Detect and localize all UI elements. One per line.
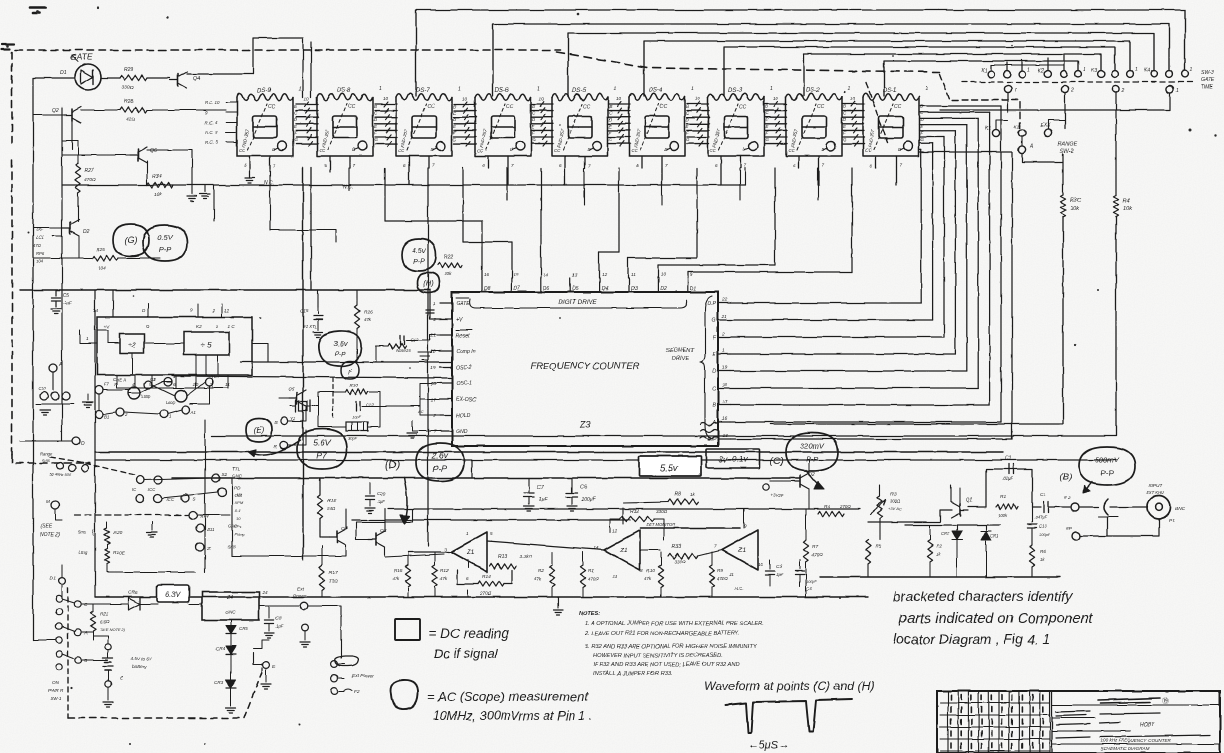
- pin stubs DS-5: [559, 156, 591, 185]
- svg-text:10: 10: [383, 96, 389, 101]
- svg-text:P-P: P-P: [159, 245, 172, 254]
- resistor R2: [549, 565, 554, 587]
- wire +V top: [112, 290, 114, 317]
- gate symbol 2: [175, 390, 187, 402]
- svg-text:+3V AC: +3V AC: [888, 506, 902, 511]
- svg-text:1μF: 1μF: [776, 572, 784, 577]
- display DS-8 FND-357: [317, 94, 378, 156]
- wire C5 top rail: [20, 289, 430, 291]
- svg-text:←5μS→: ←5μS→: [748, 739, 789, 751]
- svg-text:G: G: [453, 137, 457, 142]
- BNC connector P1: [1148, 496, 1171, 519]
- svg-text:Q4: Q4: [341, 526, 348, 532]
- wire rail y460: [95, 459, 1116, 461]
- resistor R14 feedback loop: [457, 570, 478, 584]
- svg-text:10k: 10k: [154, 192, 162, 198]
- svg-text:R29: R29: [124, 67, 133, 73]
- svg-text:D: D: [712, 369, 716, 375]
- svg-text:B: B: [686, 104, 689, 109]
- resistor R13: [490, 563, 516, 568]
- dashed bottom-left boundary: [68, 672, 262, 718]
- svg-text:D2: D2: [83, 229, 90, 235]
- svg-text:R10E: R10E: [113, 550, 126, 556]
- resistor R28: [120, 107, 147, 112]
- wire nodeP web: [1080, 517, 1107, 536]
- switch SW-3 contact group1-1: [988, 71, 995, 78]
- svg-text:330Ω: 330Ω: [122, 85, 134, 91]
- capacitor C1 top: [1008, 464, 1010, 474]
- wire dashed link SW-3 to RANGE SW-2: [940, 74, 1020, 128]
- svg-text:HOBY: HOBY: [1140, 722, 1155, 728]
- svg-text:11: 11: [225, 382, 230, 388]
- svg-text:K1: K1: [981, 68, 987, 74]
- svg-text:5.5v: 5.5v: [660, 463, 679, 474]
- switch RANGE SW-2 pole A: [1018, 146, 1025, 153]
- svg-text:CC: CC: [268, 104, 276, 110]
- svg-text:DET MONITOR: DET MONITOR: [646, 522, 675, 527]
- divide-by-2 block: [120, 334, 144, 353]
- svg-text:C1: C1: [1040, 492, 1046, 498]
- svg-text:CC: CC: [817, 104, 825, 110]
- resistor R7: [803, 540, 808, 562]
- capacitor C4: [799, 560, 801, 569]
- wire rail x35 to switch: [33, 639, 55, 641]
- wire rail y185 corner: [744, 168, 746, 185]
- node Ext Power: [300, 602, 308, 610]
- svg-text:270Ω: 270Ω: [479, 591, 492, 596]
- wire RW right: [197, 514, 230, 516]
- crystal Y1: [295, 400, 297, 412]
- svg-text:10MHz, 300mVrms at Pin 1 .: 10MHz, 300mVrms at Pin 1 .: [433, 709, 593, 723]
- wire rail y185: [62, 184, 745, 186]
- svg-text:B: B: [765, 104, 768, 109]
- svg-text:330Ω: 330Ω: [656, 509, 668, 514]
- wire R13 to amp2: [444, 551, 451, 553]
- svg-text:P1: P1: [1169, 518, 1175, 524]
- switch SW-3 pole contact 1: [1004, 85, 1011, 92]
- svg-text:CC: CC: [319, 148, 326, 153]
- svg-text:ON: ON: [52, 680, 60, 685]
- capacitor C3: [769, 560, 771, 569]
- svg-text:2t': 2t': [206, 546, 212, 551]
- svg-text:F: F: [686, 130, 689, 135]
- wire arc to BNC: [1110, 506, 1148, 508]
- waveform drawing: [725, 699, 852, 733]
- svg-text:0.5V: 0.5V: [157, 233, 173, 242]
- wire S2: [144, 478, 212, 480]
- svg-text:C20: C20: [377, 491, 386, 497]
- svg-text:1k: 1k: [690, 492, 696, 497]
- svg-text:P7: P7: [317, 451, 328, 461]
- node D contact: [72, 437, 80, 445]
- title block scribbles: [1056, 697, 1210, 751]
- svg-text:R8: R8: [674, 492, 681, 498]
- svg-text:470Ω: 470Ω: [812, 552, 823, 557]
- svg-text:1: 1: [1135, 67, 1138, 73]
- svg-text:R6: R6: [1040, 549, 1046, 554]
- wire Q1 web: [868, 485, 986, 540]
- svg-text:11: 11: [631, 272, 636, 277]
- ground C15: [313, 331, 323, 333]
- wire battery top: [93, 636, 108, 644]
- svg-text:R7: R7: [812, 544, 818, 550]
- capacitor C8: [268, 606, 270, 618]
- wire amp2-amp3: [640, 549, 660, 551]
- notes text block: [579, 611, 764, 677]
- svg-text:47k: 47k: [534, 576, 542, 581]
- svg-text:100pF: 100pF: [1039, 532, 1051, 537]
- resistor R33: [668, 553, 698, 558]
- svg-text:#P: #P: [1066, 526, 1073, 532]
- wire R8 left: [623, 502, 668, 503]
- svg-text:B: B: [374, 104, 377, 109]
- svg-text:D5: D5: [572, 286, 579, 292]
- svg-text:DIGIT DRIVE: DIGIT DRIVE: [559, 299, 598, 306]
- svg-text:BNC: BNC: [1175, 506, 1186, 512]
- wire segment bus between displays: [687, 102, 709, 147]
- resistor R18: [317, 495, 322, 519]
- svg-text:3.3kΩ: 3.3kΩ: [520, 554, 533, 559]
- annotation bubble 3.6v: [319, 331, 361, 366]
- svg-text:F: F: [609, 130, 612, 135]
- svg-text:R28: R28: [124, 99, 133, 105]
- svg-text:500mV: 500mV: [1095, 456, 1120, 465]
- svg-text:R5: R5: [875, 544, 881, 550]
- svg-text:{: {: [92, 530, 94, 536]
- title block outer box: [937, 691, 1220, 753]
- svg-text:B: B: [713, 403, 717, 409]
- switch RANGE SW-2 contact K11: [1018, 129, 1025, 136]
- wire switch web: [99, 382, 209, 414]
- IC Z3 digit pins top: [482, 272, 696, 292]
- svg-text:5.6V: 5.6V: [313, 437, 332, 447]
- svg-text:12: 12: [224, 308, 230, 313]
- capacitor C6: [571, 478, 573, 492]
- wire R3C down to corner: [770, 217, 1063, 424]
- svg-text:10k: 10k: [444, 271, 452, 276]
- svg-text:1. A OPTIONAL JUMPER FOR USE: 1. A OPTIONAL JUMPER FOR USE WITH EXTERN…: [585, 621, 764, 627]
- svg-text:.1μF: .1μF: [63, 300, 73, 305]
- switch SW-3 contact group4-3: [1182, 71, 1189, 78]
- wire K1 up: [996, 120, 1008, 129]
- svg-text:R30: R30: [350, 383, 359, 388]
- svg-text:PPs: PPs: [234, 524, 241, 529]
- svg-text:C15: C15: [300, 308, 309, 313]
- svg-text:2: 2: [211, 308, 215, 313]
- enclosure dashed boundary top: [12, 50, 560, 143]
- LED D1 gate lamp: [75, 64, 101, 90]
- op-amp Z1b: [604, 530, 640, 570]
- wire Q2 emitter: [808, 489, 810, 509]
- svg-text:2: 2: [1070, 88, 1074, 94]
- svg-text:(H): (H): [423, 279, 434, 288]
- svg-text:2: 2: [432, 317, 436, 323]
- svg-text:Z4: Z4: [226, 595, 233, 601]
- boxed 6.3V: [157, 585, 189, 602]
- pin stubs DS-9: [244, 156, 276, 168]
- svg-text:F7: F7: [104, 382, 110, 387]
- switch SW-3 contact group4-1: [1151, 71, 1158, 78]
- svg-text:⑲: ⑲: [1162, 697, 1169, 705]
- capacitor C12b: [355, 402, 357, 411]
- label N.C. pins DS-9: [205, 100, 237, 145]
- svg-text:Z1: Z1: [466, 549, 475, 556]
- svg-text:D1: D1: [690, 286, 697, 292]
- gate symbol 1: [128, 387, 140, 399]
- wire under R5: [867, 564, 869, 577]
- svg-text:A: A: [1029, 144, 1034, 150]
- wire gate-time bus line 5: [724, 47, 1115, 96]
- mark left edge: [2, 44, 14, 49]
- dashed switch gang SW-1: [67, 588, 69, 718]
- wire R32 loop: [610, 519, 620, 532]
- svg-text:1: 1: [379, 86, 382, 92]
- svg-text:E: E: [120, 675, 123, 680]
- svg-text:RP6: RP6: [36, 251, 45, 256]
- resistor R9: [709, 565, 714, 587]
- wire Q pair web: [232, 478, 444, 557]
- wire rhs rail y577: [820, 576, 1060, 578]
- contact 2t: [196, 543, 204, 551]
- svg-text:F: F: [765, 130, 768, 135]
- svg-text:.1μF: .1μF: [377, 499, 386, 504]
- svg-text:EX-OSC: EX-OSC: [456, 397, 476, 403]
- svg-text:F: F: [348, 370, 352, 376]
- wire gate-time bus line 7: [884, 61, 1078, 96]
- svg-text:+3V2P: +3V2P: [770, 493, 783, 498]
- svg-text:7: 7: [432, 163, 435, 168]
- resistor R17: [319, 566, 324, 590]
- svg-text:330Ω: 330Ω: [674, 559, 686, 564]
- handwritten bracketed note: [893, 588, 1093, 647]
- wire switch stub: [1063, 55, 1065, 70]
- contact jack top: [302, 625, 309, 632]
- ground C7: [524, 505, 534, 507]
- legend AC circle symbol: [391, 680, 419, 709]
- svg-text:1: 1: [299, 86, 302, 92]
- transistor D2: [69, 222, 71, 234]
- svg-text:1: 1: [848, 86, 851, 92]
- resistor R2b: [927, 540, 932, 562]
- svg-text:2: 2: [124, 412, 128, 417]
- svg-text:(E): (E): [254, 426, 265, 435]
- wire pair tall: [302, 168, 304, 560]
- ground test points: [40, 409, 50, 411]
- svg-text:D7: D7: [513, 286, 520, 292]
- svg-text:47k: 47k: [364, 317, 372, 322]
- svg-text:100k: 100k: [998, 513, 1008, 518]
- annotation bubble 4.5v: [402, 239, 436, 271]
- resistor R16: [405, 565, 410, 587]
- wire contacts: [288, 406, 306, 421]
- wire gate-time bus line 4: [644, 41, 1130, 96]
- display DS-2 FND-357: [786, 94, 847, 156]
- resistor R8: [668, 499, 698, 504]
- wire D1sw up: [61, 565, 63, 577]
- ground CR3: [226, 707, 236, 709]
- switch SW-3 pole contact 4: [1166, 85, 1173, 92]
- svg-text:D1: D1: [50, 576, 56, 581]
- divider internal wires: [97, 330, 218, 375]
- ground C6: [567, 505, 577, 507]
- svg-text:SEGMENT: SEGMENT: [666, 348, 695, 354]
- wire R26 top: [356, 290, 358, 305]
- svg-text:Q4: Q4: [193, 76, 200, 82]
- resistor R12: [432, 565, 437, 587]
- pin stubs DS-4: [636, 156, 668, 185]
- svg-text:E7: E7: [214, 374, 220, 379]
- wire gate-time bus line 3: [568, 33, 1154, 96]
- svg-text:CC: CC: [239, 148, 246, 153]
- pin stubs DS-6: [482, 156, 514, 185]
- wire CR chain bottom: [230, 688, 232, 706]
- annotation bubble 500mV: [1079, 447, 1135, 485]
- svg-text:4.5V to 6V: 4.5V to 6V: [130, 656, 152, 661]
- enclosure dashed boundary slope: [556, 52, 940, 72]
- svg-text:NOTE 2): NOTE 2): [40, 532, 60, 538]
- svg-text:Comp In: Comp In: [456, 349, 476, 355]
- svg-text:6: 6: [793, 163, 796, 168]
- svg-text:+V: +V: [456, 317, 463, 323]
- svg-text:DS-8: DS-8: [337, 88, 351, 94]
- svg-text:2: 2: [721, 331, 725, 337]
- resistor R10E: [104, 548, 109, 564]
- wire R27 bottom: [77, 193, 79, 222]
- svg-text:7: 7: [353, 163, 356, 168]
- diode CR6: [128, 598, 140, 610]
- wire divider to rail: [252, 343, 268, 362]
- contact R: [280, 441, 287, 448]
- ground C5: [51, 308, 61, 310]
- svg-text:R: R: [274, 444, 278, 450]
- wire Q2 base: [770, 480, 792, 482]
- svg-text:73Ω: 73Ω: [329, 578, 338, 583]
- wire D2 base: [33, 227, 62, 229]
- svg-text:NOTES:: NOTES:: [579, 611, 600, 617]
- svg-text:CR4: CR4: [216, 646, 226, 651]
- svg-text:D: D: [81, 441, 85, 447]
- wire R25 right: [118, 257, 160, 259]
- svg-text:1: 1: [925, 86, 928, 92]
- svg-text:12: 12: [612, 528, 618, 533]
- strikethrough DET wire: [640, 527, 740, 529]
- svg-text:1: 1: [153, 377, 156, 382]
- svg-text:K4: K4: [1144, 68, 1150, 74]
- resistor R29: [120, 75, 147, 80]
- pin stubs DS-2: [793, 156, 825, 185]
- switch SW-1 throw contacts: [62, 599, 88, 664]
- wire segment bus between displays: [454, 102, 476, 147]
- wire switch stub: [1021, 60, 1023, 70]
- wire switch C out: [82, 603, 128, 605]
- node +3V2P: [763, 484, 769, 490]
- svg-text:D.P: D.P: [707, 437, 716, 443]
- svg-text:C8: C8: [275, 616, 281, 622]
- svg-text:18: 18: [722, 382, 728, 388]
- svg-text:1: 1: [537, 86, 540, 92]
- svg-text:22: 22: [721, 297, 728, 303]
- transistor Q4: [177, 74, 179, 86]
- svg-text:3: 3: [444, 547, 447, 552]
- wire vertical pair down: [310, 42, 312, 97]
- wire ext power right: [308, 606, 341, 658]
- wire +V to rail: [430, 290, 440, 319]
- svg-text:1: 1: [173, 374, 176, 379]
- svg-text:DS-4: DS-4: [649, 88, 663, 94]
- ground bottom mid: [557, 597, 559, 608]
- transistor Q2: [799, 475, 801, 487]
- svg-text:Y1 XTL: Y1 XTL: [303, 324, 318, 329]
- wire dashed around DS-1: [866, 82, 888, 142]
- svg-text:G: G: [532, 137, 536, 142]
- svg-text:A: A: [712, 420, 717, 426]
- svg-text:5ms: 5ms: [42, 458, 51, 463]
- resistor R5: [865, 540, 870, 564]
- contact B11: [196, 524, 204, 532]
- wire long drop x428: [427, 168, 429, 546]
- resistor R26: [354, 305, 359, 329]
- ground mid: [151, 522, 153, 530]
- svg-text:21: 21: [721, 314, 728, 320]
- contact RW: [189, 511, 197, 519]
- svg-text:19: 19: [431, 365, 437, 371]
- switch SW-3 contact group1-2: [1004, 71, 1011, 78]
- contact PD: [218, 488, 226, 496]
- wire D1 left: [33, 77, 75, 79]
- wire switch tie: [991, 64, 1064, 66]
- wire D1-R29: [101, 77, 120, 79]
- svg-text:D6: D6: [543, 286, 550, 292]
- svg-text:CC: CC: [894, 104, 902, 110]
- node P: [1072, 532, 1080, 540]
- svg-text:10: 10: [850, 96, 856, 101]
- arrow C down: [806, 470, 822, 488]
- svg-text:Q2: Q2: [52, 108, 59, 114]
- svg-text:F: F: [843, 130, 846, 135]
- switch RANGE SW-2 contact K1: [992, 129, 999, 136]
- wire segment bus between displays: [842, 102, 864, 147]
- svg-text:10k: 10k: [1123, 206, 1133, 212]
- svg-text:RANGE: RANGE: [1058, 142, 1078, 148]
- capacitor C7: [528, 478, 530, 492]
- svg-text:Q3: Q3: [380, 528, 387, 534]
- capacitor C12 at IC: [399, 336, 401, 345]
- wire Q6 base: [62, 154, 130, 156]
- svg-text:-0.1: -0.1: [234, 508, 241, 513]
- wire SW-3 pole 2 down: [1064, 93, 1066, 128]
- switch SW-3 pole contact 3: [1112, 85, 1119, 92]
- wire R6 bottom: [1031, 567, 1033, 577]
- svg-text:Z1: Z1: [619, 547, 628, 554]
- svg-text:DS-2: DS-2: [806, 88, 820, 94]
- svg-text:SW-2: SW-2: [1060, 149, 1073, 155]
- wire resistor tops: [408, 552, 712, 597]
- capacitor C5: [55, 290, 57, 296]
- wire module pin short drops: [270, 168, 818, 230]
- svg-text:Ext Power: Ext Power: [352, 673, 374, 679]
- wire left rail x95: [94, 290, 96, 597]
- resistor R4: [1113, 195, 1118, 217]
- svg-text:EXX: EXX: [1040, 123, 1051, 129]
- svg-text:5: 5: [490, 531, 493, 536]
- svg-text:6: 6: [715, 163, 718, 168]
- svg-text:bracketed characters identif: bracketed characters identify: [893, 588, 1073, 604]
- svg-text:R21: R21: [100, 611, 109, 617]
- wire amp1 out: [408, 551, 449, 553]
- svg-text:R22: R22: [444, 254, 453, 260]
- dashed wire RW: [75, 514, 188, 516]
- svg-text:14: 14: [543, 272, 549, 277]
